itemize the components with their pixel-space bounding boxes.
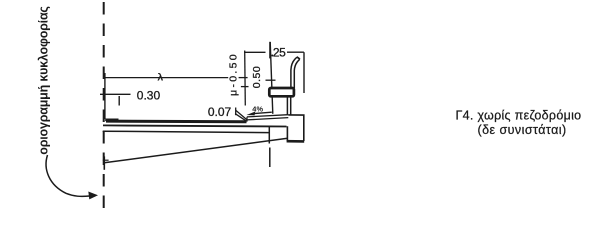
wire: extension line at centerline	[104, 73, 106, 119]
svg-text:οριογραμμή κυκλοφορίας: οριογραμμή κυκλοφορίας	[37, 6, 51, 154]
svg-text:0.50: 0.50	[251, 66, 263, 88]
node label: .25	[271, 54, 273, 56]
node: dimension tick	[269, 42, 271, 59]
node: rail box	[269, 88, 294, 96]
wire: slab top thin line	[103, 125, 287, 126]
svg-text:0.30: 0.30	[137, 88, 161, 102]
wire: extension line A	[244, 51, 247, 106]
wire: deck underside diagonal	[104, 138, 287, 163]
wire: lambda dimension line	[105, 77, 228, 79]
wire: strip surface double line (4% slope)	[247, 115, 288, 117]
wire: pole below rail box	[286, 96, 288, 115]
svg-text:λ: λ	[157, 71, 163, 83]
wire: right extension line	[303, 52, 305, 93]
wire: curved leader arrow from label to centerline	[46, 155, 89, 196]
wire: pole axis dashes below deck	[268, 126, 270, 144]
svg-text:(δε συνιστάται): (δε συνιστάται)	[478, 123, 567, 137]
wire: road pavement thick top line	[106, 120, 247, 124]
node: dashed road centerline	[103, 2, 105, 216]
node: curb face	[246, 117, 248, 122]
node: 0.50 tick	[266, 79, 276, 81]
wire: 0.25 dimension line top	[244, 51, 266, 53]
svg-text:0.07: 0.07	[208, 105, 232, 119]
svg-text:Γ4. χωρίς πεζοδρόμιο: Γ4. χωρίς πεζοδρόμιο	[456, 109, 582, 123]
svg-text:25: 25	[273, 45, 286, 59]
node: pole above rail box with curved top	[291, 57, 297, 88]
svg-text:4%: 4%	[252, 104, 263, 113]
node: edge beam block	[287, 115, 303, 141]
wire: pole axis vertical P	[270, 42, 273, 114]
wire: 0.07 leader double line	[235, 108, 237, 116]
wire: 0.30 dimension line	[100, 93, 131, 95]
wire: 4% slope arrow	[252, 112, 272, 114]
svg-text:μ-0.50: μ-0.50	[228, 52, 240, 96]
